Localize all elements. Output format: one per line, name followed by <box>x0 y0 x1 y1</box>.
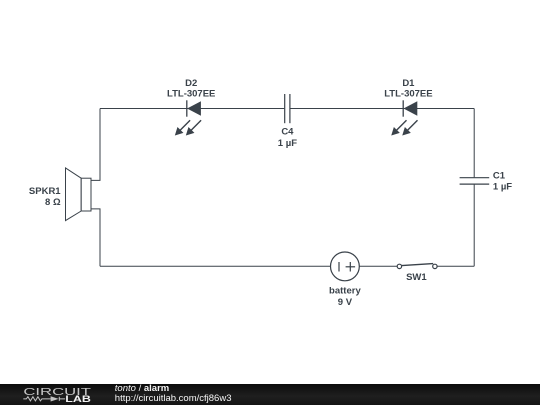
svg-text:C1: C1 <box>493 170 506 181</box>
svg-text:8 Ω: 8 Ω <box>45 197 61 208</box>
svg-text:9 V: 9 V <box>338 297 353 308</box>
svg-text:SPKR1: SPKR1 <box>29 186 61 197</box>
svg-text:LTL-307EE: LTL-307EE <box>167 89 215 100</box>
svg-text:battery: battery <box>329 286 361 297</box>
svg-text:C4: C4 <box>281 127 294 138</box>
svg-text:1 µF: 1 µF <box>278 138 297 149</box>
svg-text:http://circuitlab.com/cfj86w3: http://circuitlab.com/cfj86w3 <box>115 393 232 404</box>
svg-text:LAB: LAB <box>65 394 91 404</box>
svg-text:LTL-307EE: LTL-307EE <box>384 89 432 100</box>
svg-text:SW1: SW1 <box>406 272 427 283</box>
svg-text:1 µF: 1 µF <box>493 182 512 193</box>
